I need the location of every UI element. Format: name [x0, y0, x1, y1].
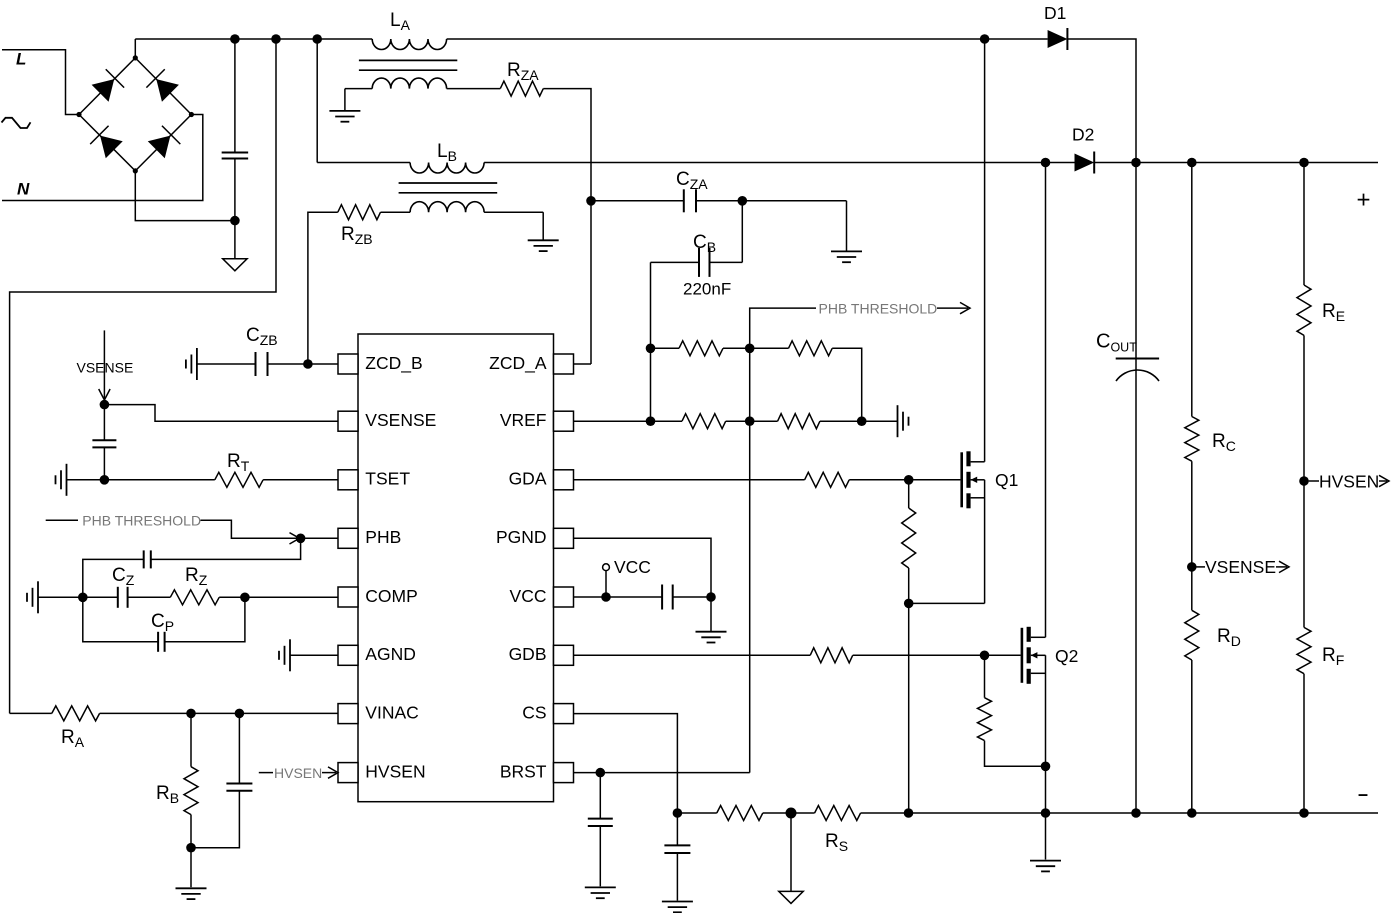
- svg-text:HVSEN: HVSEN: [365, 761, 425, 781]
- svg-text:VCC: VCC: [614, 557, 651, 577]
- svg-text:L: L: [16, 50, 26, 69]
- svg-text:HVSEN: HVSEN: [1319, 471, 1379, 491]
- svg-text:D2: D2: [1072, 125, 1094, 145]
- svg-text:+: +: [1357, 187, 1371, 214]
- svg-text:220nF: 220nF: [683, 280, 731, 299]
- svg-text:VSENSE: VSENSE: [77, 360, 134, 376]
- svg-text:PHB THRESHOLD: PHB THRESHOLD: [82, 513, 201, 529]
- svg-text:BRST: BRST: [500, 761, 547, 781]
- svg-text:AGND: AGND: [365, 644, 416, 664]
- svg-text:PHB: PHB: [365, 527, 401, 547]
- svg-text:Q2: Q2: [1055, 646, 1078, 666]
- svg-text:VSENSE: VSENSE: [365, 410, 436, 430]
- svg-text:ZCD_A: ZCD_A: [489, 353, 547, 374]
- svg-text:VCC: VCC: [510, 586, 547, 606]
- svg-text:Q1: Q1: [995, 470, 1018, 490]
- svg-text:VINAC: VINAC: [365, 702, 418, 722]
- svg-text:PGND: PGND: [496, 527, 547, 547]
- svg-text:GDB: GDB: [509, 644, 547, 664]
- svg-text:D1: D1: [1044, 3, 1066, 23]
- svg-text:CS: CS: [522, 702, 546, 722]
- svg-text:GDA: GDA: [509, 469, 547, 489]
- svg-text:PHB THRESHOLD: PHB THRESHOLD: [819, 301, 938, 317]
- svg-text:–: –: [1358, 784, 1368, 804]
- svg-text:VSENSE: VSENSE: [1205, 557, 1276, 577]
- svg-text:N: N: [17, 180, 30, 199]
- svg-text:COMP: COMP: [365, 586, 418, 606]
- svg-text:ZCD_B: ZCD_B: [365, 353, 422, 374]
- svg-text:TSET: TSET: [365, 469, 410, 489]
- svg-text:HVSEN: HVSEN: [274, 765, 322, 781]
- svg-text:VREF: VREF: [500, 410, 547, 430]
